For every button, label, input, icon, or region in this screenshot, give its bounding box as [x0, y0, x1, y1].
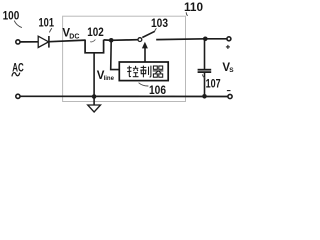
terminal bottom-right [228, 94, 232, 98]
diode 101 [38, 36, 49, 48]
svg-text:S: S [229, 67, 234, 74]
svg-text:101: 101 [39, 16, 55, 30]
ground [88, 97, 101, 113]
label VDC [62, 28, 79, 41]
svg-text:DC: DC [69, 33, 79, 40]
text kong (controller char1) [127, 66, 139, 77]
terminal top-left [16, 40, 20, 44]
plus sign [226, 45, 230, 49]
text zhi (controller char2) [140, 66, 151, 78]
label 100 [3, 8, 22, 27]
label 102 [87, 25, 104, 42]
svg-text:110: 110 [184, 0, 203, 14]
wire input to diode [20, 41, 38, 43]
capacitor 107 [198, 39, 212, 97]
label 101 [39, 16, 55, 33]
bottom rail wire [20, 95, 228, 97]
box 110 (dashed light outline of apparatus) [63, 16, 186, 101]
wire 102 to junction [104, 39, 112, 42]
minus sign [227, 90, 231, 92]
wire Vline sense tap [111, 40, 120, 69]
svg-text:106: 106 [149, 85, 166, 97]
terminal bottom-left [16, 94, 20, 98]
wire switch to output junction [156, 38, 205, 41]
control arrow from controller to switch [142, 42, 148, 62]
junction output bottom [202, 94, 207, 99]
wire to terminal top-right [205, 38, 227, 40]
switch 103 [138, 31, 155, 41]
label 103 [151, 16, 168, 31]
svg-text:line: line [104, 76, 115, 82]
label 106 [139, 83, 166, 97]
label 110 [184, 0, 203, 16]
svg-text:102: 102 [87, 25, 104, 39]
controller U106 box [119, 62, 168, 81]
label 107 [202, 74, 220, 90]
junction ground tap [92, 94, 97, 99]
label Vline [97, 70, 115, 82]
junction output top [203, 37, 208, 42]
wire diode to 102 [50, 40, 86, 42]
wire 102 tap to ground rail [93, 53, 95, 97]
svg-text:107: 107 [206, 78, 221, 90]
resistor 102 (series element, U-shaped dip) [85, 40, 104, 53]
svg-text:103: 103 [151, 16, 168, 30]
label AC [12, 61, 24, 77]
text qi (controller char3) [153, 66, 164, 77]
label VS [222, 62, 234, 74]
svg-text:100: 100 [3, 8, 20, 22]
junction node VDC/Vline [109, 38, 114, 43]
wire junction to switch contact [111, 39, 138, 42]
terminal top-right [227, 37, 231, 41]
